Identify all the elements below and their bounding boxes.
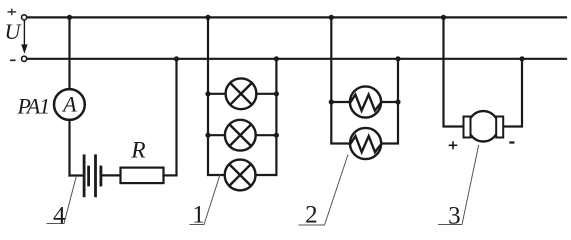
- wire lamps left rail: [208, 17, 225, 175]
- svg-text:1: 1: [192, 201, 205, 228]
- wire resistor right: [164, 174, 177, 176]
- leader line label 2: [299, 155, 349, 226]
- plus label source: [8, 9, 17, 16]
- wire lamp2 right lead: [256, 134, 277, 136]
- plus label motor: [449, 141, 458, 149]
- leader line label 4: [47, 176, 77, 224]
- minus label source: [10, 59, 16, 61]
- lamp EL3: [225, 160, 256, 191]
- terminal node -: [22, 56, 27, 61]
- junction dot lamps top: [205, 15, 210, 20]
- junction dot heaters left E1: [329, 99, 334, 104]
- wire lamps right rail: [256, 59, 277, 175]
- svg-text:A: A: [61, 92, 77, 117]
- heater EK2: [350, 128, 381, 159]
- svg-text:PA1: PA1: [17, 94, 49, 119]
- battery GB plate short 2: [100, 167, 103, 185]
- svg-text:2: 2: [305, 201, 318, 228]
- wire bottom bus (-): [27, 58, 566, 60]
- junction dot lamps right L1: [274, 91, 279, 96]
- junction dot lamps left L2: [205, 133, 210, 138]
- wire heater1 right lead: [381, 101, 398, 103]
- junction dot branch4 top: [67, 15, 72, 20]
- wire heaters right rail: [381, 59, 398, 144]
- wire battery left lead: [70, 174, 84, 176]
- svg-text:4: 4: [53, 202, 66, 229]
- wire branch4 right vertical: [175, 59, 177, 176]
- wire branch4 vertical upper: [68, 17, 70, 89]
- lamp EL2: [225, 120, 256, 151]
- motor brush right: [496, 117, 503, 138]
- junction dot lamps bottom bus: [274, 56, 279, 61]
- wire motor right rail: [504, 59, 523, 127]
- wire top bus (+): [27, 16, 566, 18]
- motor brush left: [464, 117, 471, 138]
- svg-text:3: 3: [448, 202, 461, 229]
- junction dot lamps left L1: [205, 91, 210, 96]
- leader line label 3: [438, 145, 479, 225]
- wire lamp1 left lead: [208, 93, 226, 95]
- junction dot heaters top: [329, 15, 334, 20]
- battery GB plate long 1: [83, 156, 86, 196]
- motor M circle: [468, 111, 498, 141]
- ammeter PA1: [54, 89, 85, 120]
- junction dot heaters right E1: [395, 99, 400, 104]
- junction dot heaters bottom bus: [395, 56, 400, 61]
- wire lamp1 right lead: [256, 93, 276, 95]
- minus label motor: [509, 141, 514, 143]
- junction dot motor top: [441, 15, 446, 20]
- svg-text:U: U: [5, 19, 23, 44]
- wire branch4 vertical lower: [68, 120, 70, 176]
- voltage arrow U: [21, 21, 27, 54]
- leader line label 1: [190, 175, 221, 225]
- lamp EL1: [226, 78, 257, 109]
- wire heater1 left lead: [331, 101, 350, 103]
- battery GB plate short 1: [87, 167, 90, 185]
- junction dot lamps right L2: [274, 133, 279, 138]
- wire battery to resistor: [102, 174, 120, 176]
- svg-text:R: R: [130, 137, 145, 163]
- wire heaters left rail: [331, 17, 350, 143]
- junction dot branch4 bottom bus: [174, 56, 179, 61]
- resistor R: [121, 168, 164, 184]
- wire lamp2 left lead: [208, 134, 225, 136]
- terminal node +: [22, 15, 27, 20]
- junction dot motor bottom bus: [519, 56, 524, 61]
- battery GB plate long 2: [94, 156, 97, 196]
- heater EK1: [350, 86, 381, 117]
- wire motor left rail: [444, 17, 464, 126]
